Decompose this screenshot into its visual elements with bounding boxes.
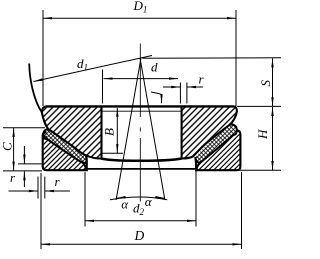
svg-text:H: H	[255, 129, 270, 140]
dimension C	[13, 128, 15, 171]
lower washer right top flat	[237, 130, 240, 132]
liner band left boundary with end caps	[43, 129, 86, 163]
d2 extension left	[84, 172, 86, 227]
C top extension	[3, 127, 45, 129]
angle arc	[110, 197, 167, 200]
liner band right boundary with end caps	[195, 125, 237, 163]
svg-text:d2: d2	[133, 201, 145, 218]
dimension d	[104, 78, 179, 80]
sphere bottom silhouette across bore	[102, 159, 182, 161]
lower washer right outline	[196, 131, 240, 171]
liner band right crosshatch	[195, 125, 237, 163]
d2 extension right	[195, 164, 197, 227]
dimension r bottom horizontal	[9, 190, 38, 192]
dimension S	[272, 58, 274, 106]
D extension left	[40, 173, 42, 249]
top surface extension right	[237, 105, 281, 107]
liner band left crosshatch	[43, 129, 86, 163]
hatch lower washer right block	[197, 131, 240, 170]
liner cap to bore edge merge left	[85, 156, 88, 170]
r leader hook	[151, 92, 162, 103]
hatch upper washer right block	[182, 108, 236, 159]
svg-text:α: α	[145, 194, 153, 209]
hatch upper washer left block	[42, 108, 101, 159]
extended sphere arc	[29, 64, 42, 113]
lower washer left outline	[43, 132, 87, 170]
centerline	[139, 44, 141, 202]
B bottom extension	[102, 152, 124, 154]
fillet tangent extension left	[18, 163, 42, 165]
dimension r left vertical	[23, 146, 25, 164]
bottom far edge across cone opening	[85, 168, 196, 170]
sphere center extension line	[143, 57, 282, 60]
dimension D	[41, 243, 242, 245]
D1 extension left	[42, 10, 44, 106]
lower washer left top flat	[43, 131, 47, 133]
svg-text:α: α	[121, 196, 129, 211]
dimension B	[116, 108, 118, 153]
svg-text:d1: d1	[77, 56, 88, 73]
liner cap to bore edge merge right	[194, 157, 197, 170]
svg-text:r: r	[10, 170, 16, 185]
dimension D1	[43, 17, 236, 19]
svg-text:D1: D1	[133, 0, 148, 15]
svg-text:S: S	[258, 80, 273, 87]
bore chamfer far-side line	[103, 110, 182, 112]
r extension lines top	[179, 83, 181, 104]
svg-text:r: r	[199, 72, 205, 87]
svg-text:B: B	[102, 128, 117, 136]
cone angle line right	[140, 59, 165, 201]
cone angle line left	[116, 59, 141, 201]
dimension d2	[85, 220, 196, 222]
D1 extension right	[235, 10, 237, 106]
svg-text:d: d	[151, 60, 158, 75]
bottom extension left	[3, 170, 42, 172]
dimension r top	[163, 86, 180, 88]
hatch lower washer left block	[43, 132, 86, 169]
svg-text:D: D	[134, 228, 145, 243]
svg-text:C: C	[0, 142, 15, 151]
D extension right	[241, 172, 243, 249]
dimension H	[272, 107, 274, 170]
r extension lines bottom	[37, 177, 39, 199]
upper washer left bore wall	[100, 107, 102, 159]
svg-text:r: r	[55, 174, 61, 189]
d extension left	[102, 70, 104, 104]
d1 leader	[34, 56, 153, 82]
upper washer top surface	[46, 105, 234, 107]
upper washer left sphere edge	[50, 130, 101, 158]
upper washer right corner and sphere edge	[182, 106, 237, 158]
bottom surface extension right	[237, 169, 281, 171]
upper washer left corner and edge	[42, 106, 48, 128]
upper washer right bore wall	[181, 107, 183, 159]
